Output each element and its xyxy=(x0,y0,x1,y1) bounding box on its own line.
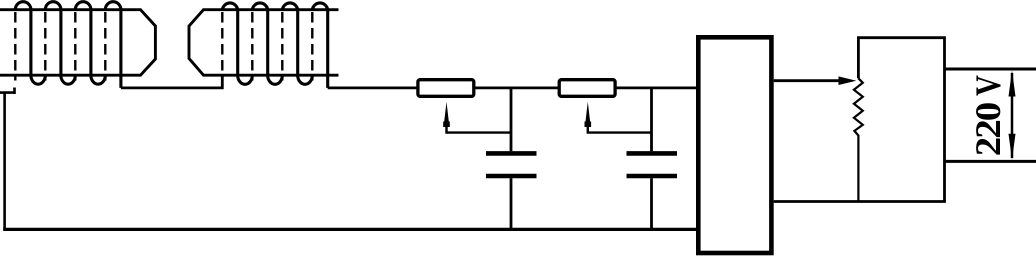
wire block bottom to transformer bottom xyxy=(774,200,946,203)
wire R2 wiper to node C2 xyxy=(588,125,652,133)
inductor L2 rear turns (dashed) xyxy=(222,12,312,81)
wire output top 220V xyxy=(945,68,1036,71)
transformer T body xyxy=(858,38,944,202)
wire L1 start lead to left edge xyxy=(0,88,15,230)
wire output bottom 220V xyxy=(945,160,1036,163)
wire R1 to resistor R2 xyxy=(474,87,559,90)
resistor R1 wiper arrowhead xyxy=(443,102,450,127)
dimension arrowhead up xyxy=(1009,70,1016,96)
wire R1 wiper to node C1 xyxy=(447,125,512,133)
inductor L1 rear turns (dashed) xyxy=(15,12,105,81)
core of choke L2 xyxy=(189,10,339,76)
capacitor C1 bottom lead xyxy=(510,178,513,229)
inductor L1 winding front turns and arcs xyxy=(15,2,121,88)
inductor L2 winding front turns and arcs xyxy=(222,3,327,88)
capacitor C1 plates xyxy=(486,153,537,176)
dimension arrow shaft 220V xyxy=(1011,73,1014,158)
bottom return bus wire xyxy=(3,228,696,231)
wire L1 end to L2 start xyxy=(121,75,222,88)
capacitor C2 plates xyxy=(627,153,678,176)
capacitor C2 bottom lead xyxy=(650,178,653,229)
resistor R2 wiper arrowhead xyxy=(585,102,592,127)
wire R2 to regulator block xyxy=(615,87,696,90)
wire block output to transformer wiper xyxy=(774,79,840,82)
transformer T winding zigzag xyxy=(854,78,863,200)
core of choke L1 xyxy=(0,10,155,76)
capacitor C1 top lead xyxy=(510,88,513,151)
resistor R2 body xyxy=(559,80,615,97)
wiper arrowhead at transformer T xyxy=(839,76,857,85)
capacitor C2 top lead xyxy=(650,88,653,151)
dimension arrowhead down xyxy=(1009,134,1016,160)
wire L2 output to resistor R1 xyxy=(328,87,417,90)
regulator block U1 xyxy=(698,37,771,253)
label 220 V xyxy=(976,76,1000,155)
resistor R1 body xyxy=(418,80,474,97)
